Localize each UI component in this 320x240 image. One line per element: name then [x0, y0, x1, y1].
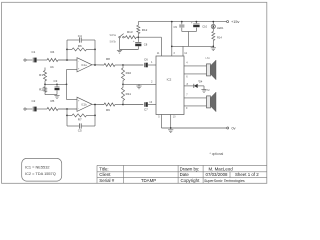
svg-text:-: -: [78, 106, 79, 110]
svg-text:R1: R1: [39, 73, 43, 77]
svg-text:C2: C2: [32, 99, 36, 103]
svg-text:-: -: [78, 59, 79, 63]
svg-text:C6: C6: [144, 57, 148, 61]
svg-text:* optional: * optional: [210, 152, 224, 156]
svg-text:Copyright: Copyright: [181, 178, 201, 183]
svg-text:LS1: LS1: [206, 57, 211, 60]
svg-text:R9: R9: [106, 108, 110, 112]
svg-text:C1: C1: [32, 50, 36, 54]
svg-text:IC1a: IC1a: [81, 63, 87, 67]
svg-text:Ub: Ub: [50, 65, 54, 69]
svg-text:R13: R13: [127, 30, 133, 34]
svg-text:C7: C7: [144, 107, 148, 111]
svg-text:C9: C9: [174, 25, 178, 29]
svg-text:IC2 = TDA 1557Q: IC2 = TDA 1557Q: [25, 171, 56, 176]
svg-text:IC1 = NE5532: IC1 = NE5532: [25, 164, 50, 169]
svg-text:Title:: Title:: [99, 166, 108, 171]
svg-text:Client: Client: [99, 172, 111, 177]
svg-text:0v: 0v: [232, 127, 236, 131]
svg-text:R14: R14: [217, 36, 222, 40]
svg-text:*D4: *D4: [198, 79, 203, 83]
svg-text:M. MacLeod: M. MacLeod: [209, 166, 234, 171]
svg-text:SuperSonic Technologies: SuperSonic Technologies: [204, 179, 245, 183]
svg-text:TDAMP: TDAMP: [141, 178, 156, 183]
svg-text:C10: C10: [202, 24, 207, 28]
svg-text:07/03/2008: 07/03/2008: [206, 172, 229, 177]
svg-text:R8: R8: [106, 57, 110, 61]
svg-text:IC2: IC2: [167, 78, 172, 82]
svg-text:R6: R6: [78, 44, 82, 48]
svg-text:R10: R10: [126, 71, 132, 75]
svg-text:C3: C3: [54, 79, 58, 83]
svg-text:R7: R7: [78, 118, 82, 122]
svg-text:R5: R5: [51, 99, 55, 103]
svg-text:SW1b: SW1b: [109, 41, 116, 44]
svg-text:R12: R12: [142, 28, 148, 32]
svg-text:R11: R11: [126, 92, 132, 96]
svg-text:Sheet 1 of 2: Sheet 1 of 2: [235, 172, 259, 177]
svg-text:Drawn by:: Drawn by:: [180, 166, 200, 171]
svg-text:LED1: LED1: [217, 26, 224, 30]
svg-text:SW1a: SW1a: [109, 34, 116, 37]
svg-text:R4: R4: [51, 50, 55, 54]
svg-text:C4: C4: [78, 34, 82, 38]
svg-text:Date: Date: [180, 172, 190, 177]
svg-text:C8: C8: [144, 43, 148, 47]
svg-text:C5: C5: [78, 129, 82, 133]
svg-text:Serial #: Serial #: [99, 178, 114, 183]
svg-text:+15v: +15v: [231, 20, 239, 24]
svg-text:IC1b: IC1b: [81, 103, 87, 107]
svg-text:R2: R2: [39, 88, 43, 92]
